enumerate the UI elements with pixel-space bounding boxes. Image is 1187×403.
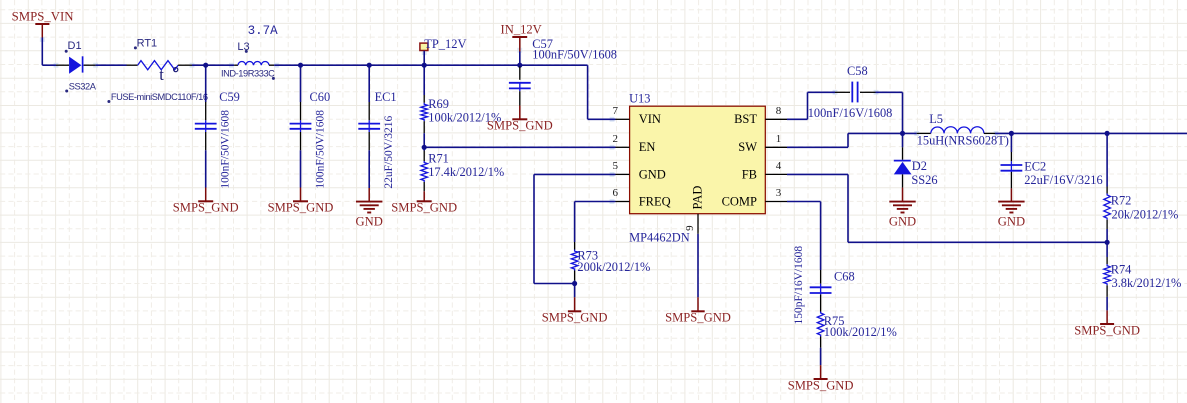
svg-text:R72: R72: [1111, 193, 1132, 207]
svg-text:200k/2012/1%: 200k/2012/1%: [577, 260, 650, 274]
svg-text:17.4k/2012/1%: 17.4k/2012/1%: [428, 165, 504, 179]
svg-text:IN_12V: IN_12V: [501, 22, 542, 36]
svg-text:SMPS_VIN: SMPS_VIN: [12, 9, 74, 23]
svg-text:100nF/16V/1608: 100nF/16V/1608: [808, 106, 893, 120]
svg-text:100nF/50V/1608: 100nF/50V/1608: [532, 47, 617, 61]
svg-text:4: 4: [776, 160, 782, 172]
svg-text:SMPS_GND: SMPS_GND: [173, 201, 239, 215]
svg-text:IND-19R333C: IND-19R333C: [221, 68, 275, 78]
svg-text:SS26: SS26: [911, 173, 937, 187]
svg-text:L5: L5: [929, 112, 943, 126]
svg-text:GND: GND: [639, 167, 666, 181]
svg-text:C60: C60: [310, 90, 331, 104]
svg-text:R74: R74: [1111, 263, 1132, 277]
svg-text:GND: GND: [998, 215, 1025, 229]
svg-text:EN: EN: [639, 140, 656, 154]
svg-text:MP4462DN: MP4462DN: [629, 231, 690, 245]
svg-text:SW: SW: [738, 140, 757, 154]
svg-text:7: 7: [612, 105, 618, 117]
svg-text:1: 1: [776, 133, 782, 145]
svg-text:SMPS_GND: SMPS_GND: [391, 201, 457, 215]
svg-text:U13: U13: [629, 92, 650, 106]
svg-text:VIN: VIN: [639, 112, 661, 126]
svg-text:3.7A: 3.7A: [248, 24, 279, 38]
svg-text:3: 3: [776, 187, 782, 199]
svg-text:SS32A: SS32A: [69, 82, 97, 92]
svg-text:3.8k/2012/1%: 3.8k/2012/1%: [1112, 276, 1182, 290]
svg-text:22uF/16V/3216: 22uF/16V/3216: [1024, 173, 1102, 187]
svg-text:5: 5: [612, 160, 618, 172]
svg-text:SMPS_GND: SMPS_GND: [542, 311, 608, 325]
svg-text:R71: R71: [428, 151, 449, 165]
svg-text:PAD: PAD: [690, 186, 704, 210]
svg-text:COMP: COMP: [722, 194, 757, 208]
svg-text:100k/2012/1%: 100k/2012/1%: [824, 325, 897, 339]
svg-text:C58: C58: [847, 64, 868, 78]
svg-text:2: 2: [612, 133, 618, 145]
svg-text:R69: R69: [428, 97, 449, 111]
svg-text:D2: D2: [912, 159, 927, 173]
svg-text:15uH(NRS6028T): 15uH(NRS6028T): [917, 134, 1009, 148]
svg-text:BST: BST: [734, 112, 757, 126]
svg-text:RT1: RT1: [137, 38, 158, 50]
svg-text:20k/2012/1%: 20k/2012/1%: [1112, 207, 1179, 221]
svg-text:GND: GND: [889, 215, 916, 229]
svg-text:FB: FB: [742, 167, 757, 181]
svg-text:FREQ: FREQ: [639, 194, 671, 208]
svg-text:C59: C59: [219, 90, 240, 104]
svg-text:9: 9: [684, 225, 696, 231]
svg-text:FUSE-miniSMDC110F/16: FUSE-miniSMDC110F/16: [111, 92, 208, 102]
svg-text:TP_12V: TP_12V: [424, 37, 466, 51]
svg-text:8: 8: [776, 105, 782, 117]
svg-text:100nF/50V/1608: 100nF/50V/1608: [220, 110, 232, 189]
svg-text:EC2: EC2: [1024, 159, 1046, 173]
svg-text:SMPS_GND: SMPS_GND: [788, 378, 854, 392]
svg-text:SMPS_GND: SMPS_GND: [665, 311, 731, 325]
svg-text:22uF/50V/3216: 22uF/50V/3216: [383, 116, 395, 189]
svg-text:150pF/16V/1608: 150pF/16V/1608: [793, 246, 805, 325]
svg-text:100nF/50V/1608: 100nF/50V/1608: [315, 110, 327, 189]
svg-text:t: t: [159, 65, 164, 84]
svg-text:C68: C68: [834, 269, 855, 283]
svg-text:SMPS_GND: SMPS_GND: [268, 201, 334, 215]
svg-text:GND: GND: [356, 215, 383, 229]
svg-text:SMPS_GND: SMPS_GND: [487, 119, 553, 133]
svg-text:SMPS_GND: SMPS_GND: [1074, 323, 1140, 337]
svg-text:D1: D1: [68, 40, 82, 52]
svg-text:L3: L3: [237, 41, 249, 53]
svg-text:6: 6: [612, 187, 618, 199]
svg-text:EC1: EC1: [375, 90, 397, 104]
